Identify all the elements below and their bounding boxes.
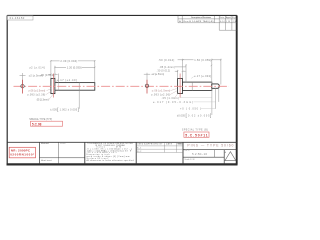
- svg-text:SPECIAL TYPE (B): SPECIAL TYPE (B): [182, 128, 208, 131]
- end view circle (left pin): [21, 85, 24, 88]
- svg-text:.50 [0.014]: .50 [0.014]: [158, 58, 174, 62]
- dim arrow ticks right: [177, 59, 222, 72]
- svg-text:JM: JM: [233, 21, 237, 23]
- svg-text:A-1: A-1: [137, 147, 141, 150]
- svg-text:JM: JM: [226, 21, 230, 23]
- svg-text:⌀.06 [⌀1.5mm]: ⌀.06 [⌀1.5mm]: [28, 90, 45, 93]
- svg-text:⌀2 [⌀.5mm]: ⌀2 [⌀.5mm]: [152, 73, 165, 76]
- drawing number box (top-left): [7, 16, 33, 20]
- dim line 1: [178, 59, 221, 61]
- shaft step line near head (left pin): [58, 83, 60, 91]
- svg-text:By: By: [232, 17, 235, 19]
- extension lines up: [178, 59, 221, 85]
- border frame: [7, 15, 238, 164]
- svg-text:⌀.17 [⌀.043]: ⌀.17 [⌀.043]: [194, 74, 211, 78]
- svg-text:S/N: S/N: [190, 159, 195, 161]
- svg-text:B-2: B-2: [137, 151, 141, 153]
- svg-text:]: ]: [78, 107, 79, 112]
- dim arrow ticks left: [50, 60, 96, 75]
- svg-text:⌀.06 [⌀1.5mm]: ⌀.06 [⌀1.5mm]: [152, 90, 171, 93]
- svg-text:.05 [1.4mm]: .05 [1.4mm]: [159, 65, 175, 69]
- approvals grid: [136, 142, 183, 152]
- svg-text:USED A APPROVED BY: USED A APPROVED BY: [137, 143, 163, 146]
- vertical centerline through right pin head: [179, 74, 181, 98]
- svg-text:5.C.08: 5.C.08: [32, 122, 42, 126]
- svg-text:2.39 [0.094]: 2.39 [0.094]: [60, 59, 77, 63]
- svg-text:5.2.50−10: 5.2.50−10: [192, 152, 207, 156]
- dim line 3: [48, 73, 57, 75]
- end view circle (right pin): [145, 84, 148, 87]
- svg-text:.05 [1.3mm]: .05 [1.3mm]: [162, 97, 179, 100]
- pin shaft (left pin): [55, 83, 95, 91]
- shaft groove line (left pin): [78, 83, 80, 91]
- extension lines: [51, 60, 95, 82]
- svg-text:⌀.17 [⌀1.40]: ⌀.17 [⌀1.40]: [57, 78, 77, 82]
- svg-text:REVISED: REVISED: [177, 144, 183, 146]
- svg-text:1.002 ± 0.005: 1.002 ± 0.005: [60, 108, 78, 111]
- pin head (left pin): [51, 78, 55, 93]
- vertical centerline through left pin head: [52, 74, 54, 98]
- svg-text:All dimension to holes otherwi: All dimension to holes otherwise specifi…: [87, 159, 134, 162]
- svg-text:±0.005: ±0.005: [177, 114, 186, 117]
- svg-text:0200RN1000*: 0200RN1000*: [10, 153, 35, 157]
- shaft groove line (right pin): [191, 82, 193, 90]
- end view B ext: [144, 73, 164, 84]
- svg-text:Description of Revisions: Description of Revisions: [191, 16, 211, 19]
- dim line 2: [175, 66, 186, 68]
- svg-text:Appd: Appd: [226, 16, 231, 19]
- rounded pin tip (right pin): [212, 84, 220, 88]
- svg-text:⌀.093 [⌀2.36]: ⌀.093 [⌀2.36]: [27, 94, 45, 97]
- vertical centerline through left end view: [22, 80, 24, 94]
- svg-text:5.C.50#11: 5.C.50#11: [185, 133, 208, 137]
- svg-text:Dwg No.: Dwg No.: [184, 150, 191, 152]
- svg-text:+0 [ 0.050 ]: +0 [ 0.050 ]: [180, 107, 201, 110]
- svg-text:SPECIAL TYPE (TYP): SPECIAL TYPE (TYP): [29, 118, 52, 121]
- svg-text:Heat treat: Heat treat: [41, 159, 52, 162]
- red note box: [9, 147, 35, 158]
- svg-text:]: ]: [210, 113, 211, 118]
- end view A: dim tick + ext: [20, 67, 45, 85]
- svg-text:.30 [0.012]: .30 [0.012]: [40, 73, 54, 77]
- revision table (top-right): [178, 16, 237, 30]
- svg-text:⌀2 [⌀.014]: ⌀2 [⌀.014]: [29, 67, 45, 70]
- svg-text:PINS — TYPE 50/60: PINS — TYPE 50/60: [187, 144, 233, 148]
- right-side extension lines down: [180, 88, 219, 115]
- svg-text:0.02 ±0.005: 0.02 ±0.005: [188, 114, 210, 117]
- svg-text:1.20 [0.030]: 1.20 [0.030]: [67, 66, 82, 70]
- svg-text:.05 [1.3mm]: .05 [1.3mm]: [36, 99, 49, 102]
- pin head (right pin): [178, 79, 183, 94]
- notes text: [87, 142, 134, 162]
- svg-text:Finish: Finish: [60, 143, 66, 145]
- svg-text:Material: Material: [41, 142, 49, 145]
- svg-text:Scale: Scale: [185, 159, 190, 161]
- svg-text:⌀.017 [0.05−0.3mm]: ⌀.017 [0.05−0.3mm]: [153, 101, 193, 104]
- svg-text:4-14: 4-14: [220, 21, 225, 23]
- dim line 2: [55, 66, 95, 68]
- svg-text:Date: Date: [220, 16, 225, 19]
- dim line 1: [51, 60, 95, 62]
- svg-text:.30 [0.012]: .30 [0.012]: [157, 68, 171, 72]
- svg-text:1.50 [0.059]: 1.50 [0.059]: [194, 58, 211, 62]
- svg-text:Rev-B 14-APR TA40(-B): Rev-B 14-APR TA40(-B): [184, 20, 214, 23]
- pin shaft (right pin): [183, 82, 212, 90]
- svg-text:DATE: DATE: [166, 143, 173, 146]
- extension line down from groove (left pin): [78, 90, 80, 109]
- projection triangle: [225, 152, 236, 161]
- main red centerline (on top): [14, 85, 230, 87]
- dim line 3: [175, 70, 186, 72]
- svg-text:01-46150: 01-46150: [10, 16, 25, 20]
- vertical centerline through right end view: [146, 80, 148, 94]
